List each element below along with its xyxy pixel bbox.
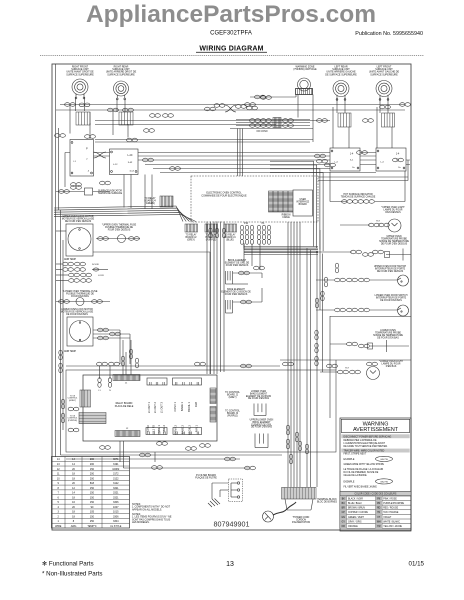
svg-text:WHITE / BLANC: WHITE / BLANC [383,520,400,523]
filter board dashed box [229,479,243,502]
svg-text:DLB: DLB [194,402,198,407]
svg-text:LES MODELES.: LES MODELES. [132,521,150,524]
svg-text:3-4Z: 3-4Z [128,162,133,164]
svg-text:AMB TEMP: AMB TEMP [64,350,76,353]
connector top-left pair b [85,135,96,139]
svg-text:COMMANDE DE FOUR ELECTRONIQ: COMMANDE DE FOUR ELECTRONIQUE [201,195,247,198]
svg-text:BROWN / BRUN: BROWN / BRUN [348,508,365,510]
svg-text:BLACK / NOIR: BLACK / NOIR [348,497,363,500]
svg-text:OR: OR [342,526,346,528]
probe connectors lower [347,342,370,348]
wire broil [233,273,263,284]
warning example 1 [344,456,393,461]
connector pair mid top [150,114,161,118]
color code table [340,496,411,528]
svg-text:BK: BK [342,498,346,500]
svg-text:SURFACE SUPERIEURE: SURFACE SUPERIEURE [370,73,398,76]
wire warming zone feed [250,95,313,143]
label hot surface indicator [341,193,376,198]
terminal block left rear unit [338,113,351,127]
connector group center row3 [283,119,294,128]
svg-text:AMB TEMP: AMB TEMP [64,258,76,261]
left connector ovals [68,407,79,432]
header separator dotted line [40,55,424,57]
connector pair rf [79,103,90,107]
relay board pin header group1 [147,378,167,385]
dual switch left front [376,148,406,171]
svg-text:MDL 2: MDL 2 [162,424,166,432]
svg-text:GREEN WIRE WITH YELLOW STRIPE: GREEN WIRE WITH YELLOW STRIPE [344,464,385,466]
wire mid long pair [95,95,313,143]
svg-text:3306: 3306 [113,515,119,518]
power cord plug [263,511,274,522]
wire left front unit drops [377,99,392,148]
relay board right connector D hatched [210,407,216,423]
wire eoc right stub [318,160,408,181]
user interface board box [293,190,313,216]
door switch connectors lower [335,308,370,312]
wire bundle vertical right2 [307,248,323,487]
wire rr switch drops [124,175,152,210]
wire nested bends right [270,161,323,251]
svg-text:D'EN DESSUS: D'EN DESSUS [385,212,401,214]
svg-text:FIRST, STRIPE NEXT: FIRST, STRIPE NEXT [344,454,367,456]
label to control board j2 [225,392,240,399]
svg-text:105: 105 [90,511,95,514]
wire probe lower [330,343,347,345]
left row tags [92,264,104,277]
wire top chassis [280,360,411,370]
connector ovals band right [317,159,336,166]
connector pair rr-a [108,108,119,112]
upper oven light connectors [369,221,390,227]
connector block eoc mid hatched [205,224,218,232]
infinite switch right front [70,140,94,177]
pin ovals on mid verticals [209,228,226,238]
label surface indicator [98,190,123,196]
connector pair top band d [380,105,391,109]
pin group p1 [257,225,270,235]
wires above relay board [66,340,280,379]
notes french [132,513,172,524]
svg-text:3-1Z: 3-1Z [129,170,134,172]
lower oven thermal fuse wire [56,301,110,303]
upper oven lock motor [68,228,91,251]
connector pair bake [241,300,252,304]
wire bus switch band [65,153,410,173]
upper oven light lamp [388,219,401,232]
wire pins to elements [244,244,260,271]
warning gray band 2 [341,449,409,453]
pin group p10 lower [240,235,253,245]
wire right rear unit drops [113,99,128,138]
connector row below relay [100,442,211,451]
svg-text:3306: 3306 [113,501,119,504]
surface unit right rear [114,81,129,100]
svg-text:LE TRACE DE FILAGE: LA COULEUR: LE TRACE DE FILAGE: LA COULEUR [344,468,384,471]
title underline [196,51,267,53]
lower oven light connectors [338,368,361,374]
color code header band [340,491,411,496]
wire right inner box [330,316,411,418]
relay board left connector A hatched [80,390,91,407]
label upper oven lock motor [62,216,95,223]
connector pair broil [239,266,265,275]
ribbon cable hatched [269,191,294,212]
wire lower light [320,371,338,373]
right column vertical wire [319,230,321,310]
svg-text:(GREY): (GREY) [187,239,195,241]
upper broil element [226,271,233,284]
terminal block right front unit [76,112,90,125]
svg-text:13: 13 [226,561,234,568]
label lower bake element [246,391,272,400]
svg-text:DE FAIRE TOUT SERVICE D'ENTRE: DE FAIRE TOUT SERVICE D'ENTRETIEN. [344,445,389,448]
upper oven lock motor box [66,224,93,256]
svg-text:CONV 1: CONV 1 [173,401,177,411]
svg-text:AppliancePartsPros.com: AppliancePartsPros.com [86,1,376,28]
upper oven door switch [398,275,409,286]
svg-text:818: 818 [90,482,95,485]
svg-text:PR: PR [377,503,381,505]
svg-text:EXEMPLE: EXEMPLE [344,481,355,483]
svg-text:TN: TN [377,512,380,514]
terminal block hatched [282,488,317,500]
svg-text:DISCONNECT POWER BEFORE SERVIC: DISCONNECT POWER BEFORE SERVICING [344,436,392,438]
svg-text:3321: 3321 [113,487,119,490]
svg-text:FOUR D'EN DESSUS: FOUR D'EN DESSUS [225,294,248,296]
wire gauge table text [55,458,122,528]
svg-text:FOUR D'EN DESSUS: FOUR D'EN DESSUS [108,229,131,231]
svg-text:L1 OUT 2: L1 OUT 2 [153,401,157,413]
wire bundle vertical right [288,222,300,487]
wire bundle eoc to bus [244,247,318,255]
wire hot surface [330,171,405,202]
svg-text:WIRING DIAGRAM: WIRING DIAGRAM [199,46,263,53]
svg-text:3191: 3191 [113,463,119,466]
lower oven bake element [254,404,266,416]
svg-text:BLOC DE BORNES: BLOC DE BORNES [317,501,338,503]
connector pair fuse u1 [98,237,109,241]
svg-text:(PURPLE): (PURPLE) [227,415,238,417]
svg-text:DE FOUR D'EN BAS: DE FOUR D'EN BAS [66,313,88,316]
terminal block body [285,499,313,510]
wire upper light [340,224,370,226]
wires below relay board [61,441,283,468]
svg-text:GN-YW: GN-YW [380,459,388,461]
svg-text:RED / ROUGE: RED / ROUGE [383,508,398,510]
svg-text:TEMP°C: TEMP°C [87,525,97,528]
svg-text:BR: BR [342,508,346,510]
wire door lower [316,309,398,311]
svg-text:250: 250 [90,520,95,523]
connector to relay board j4 hatched [160,196,173,207]
vertical ovals right col [324,263,338,287]
wire crossover pair [225,105,236,112]
label to relay board p4 [224,234,236,242]
svg-text:1007: 1007 [113,506,119,509]
warning title box [341,419,409,432]
relay board pin header group2 [173,378,202,385]
terminal block left front unit [382,113,395,127]
svg-text:DE SURFACE SUPERIEURE: DE SURFACE SUPERIEURE [325,73,357,76]
warning gray band 1 [341,434,409,438]
label upper oven thermal fuse [102,224,137,232]
wire probe upper [316,251,352,253]
diagram border frame [52,64,411,530]
label upper oven temp probe [379,236,409,245]
relay board top pins [98,378,112,388]
connector pair surf ind [59,190,70,194]
label upper oven light [381,207,405,214]
wire bake [233,288,263,302]
svg-text:807949901: 807949901 [214,520,250,529]
svg-text:D'ALIMENTATION: D'ALIMENTATION [292,521,311,524]
connector block center hatched [273,118,281,128]
label left front surface unit [369,66,400,77]
wire gauge table grid [52,457,130,529]
svg-text:(750/80W) WATTAGE: (750/80W) WATTAGE [293,68,317,71]
svg-text:GN: GN [342,517,346,519]
wire bundle diagonal left [54,206,196,222]
svg-text:WH: WH [377,521,381,523]
connector block eoc mid2 hatched [224,224,237,232]
connector pair sw band a [143,158,154,162]
svg-text:GRAY / GRIS: GRAY / GRIS [348,520,362,523]
svg-text:* Non-Illustrated Parts: * Non-Illustrated Parts [42,571,103,578]
svg-text:(BLUE): (BLUE) [226,239,234,241]
svg-text:BROIL 2: BROIL 2 [188,424,192,434]
svg-text:BAKE 2: BAKE 2 [181,424,185,434]
label to relay board j3 purple [205,234,217,242]
pin group p10 [240,225,253,235]
svg-text:DE FOUR D'EN BAS: DE FOUR D'EN BAS [377,336,399,339]
svg-text:PK: PK [377,498,381,500]
svg-text:150: 150 [90,468,95,471]
label user interface board [296,199,309,206]
svg-text:3071: 3071 [113,458,119,461]
upper oven thermal fuse wire [96,238,140,240]
connector pair lr [317,119,328,123]
svg-text:P10: P10 [244,223,249,225]
svg-text:TEMOIN DE SURFACE CHAUDE: TEMOIN DE SURFACE CHAUDE [341,195,376,198]
door switch connectors upper [335,278,370,282]
svg-text:(PURPLE): (PURPLE) [206,239,217,241]
warming zone element [296,78,313,95]
svg-text:VIOLET: VIOLET [383,517,392,519]
svg-text:CGEF302TPFA: CGEF302TPFA [210,31,252,37]
label right rear surface unit [106,66,137,77]
lower oven door switch [398,305,409,316]
svg-text:✻ Functional Parts: ✻ Functional Parts [42,561,94,568]
relay board J1 connector hatched [113,375,140,381]
relay board box [83,375,217,441]
connector pair lf [363,119,374,123]
connector pair top left [65,103,76,107]
svg-text:(GREY): (GREY) [229,397,237,399]
svg-text:200: 200 [90,477,95,480]
svg-text:FIL VERT AVEC BANDE JAUNE: FIL VERT AVEC BANDE JAUNE [344,486,378,489]
connector group center row2 [250,124,272,128]
svg-text:SURFACE SUPERIEURE: SURFACE SUPERIEURE [107,73,135,76]
relay board pin header group3 [146,428,167,435]
svg-text:DE FOUR D'EN BAS: DE FOUR D'EN BAS [248,397,270,400]
svg-text:L1 P2: L1 P2 [151,424,155,431]
connector block eoc left hatched [185,224,198,232]
svg-text:DEBRANCHEZ L'APPAREIL DE: DEBRANCHEZ L'APPAREIL DE [344,439,377,442]
lower oven light lamp [367,367,380,380]
svg-text:01/15: 01/15 [409,561,425,568]
svg-text:CELLE DE LA BANDE.: CELLE DE LA BANDE. [344,474,368,477]
warning box frame [340,418,411,531]
svg-text:200: 200 [90,463,95,466]
svg-text:L-4C: L-4C [128,155,133,157]
svg-text:DE FOUR D'EN DESSUS: DE FOUR D'EN DESSUS [377,271,404,273]
connector pair sw band d [357,151,368,155]
connector pair sw band e [393,158,404,162]
connector row below relay 2 [140,453,256,470]
svg-text:150: 150 [90,515,95,518]
connector ovals crossover [205,96,272,111]
connector pair rr-b [123,108,134,112]
svg-text:3321: 3321 [113,496,119,499]
label L1 N [98,390,111,392]
pin labels group3 [146,424,166,432]
wire bundle bend [243,244,245,250]
svg-text:TRACER WIRE: WIRE COLOR NOTED: TRACER WIRE: WIRE COLOR NOTED [344,450,385,453]
pin group p1 lower [257,235,270,245]
svg-text:3172: 3172 [113,473,119,476]
connector pair motor out [98,328,121,340]
label to control board j3 [225,411,240,418]
svg-text:GY: GY [342,521,346,523]
probe connectors upper [351,250,384,256]
connector pair lower area [97,362,120,366]
svg-text:DE FOUR D'EN DESSUS: DE FOUR D'EN DESSUS [65,221,92,223]
pin labels group1 [147,401,163,413]
svg-text:CP: CP [342,512,346,514]
svg-text:BROIL 1: BROIL 1 [187,401,191,411]
svg-text:150: 150 [90,492,95,495]
svg-text:DU FIL DE PREMIER, SUIVIE DE: DU FIL DE PREMIER, SUIVIE DE [344,472,379,474]
wire left rows [56,264,108,281]
svg-text:UL STYLE: UL STYLE [110,525,122,528]
lower oven broil element [255,434,268,448]
right column pin stack [315,330,318,366]
svg-text:DE FOUR D'EN DESSUS: DE FOUR D'EN DESSUS [381,243,408,245]
upper oven thermal fuse body [118,235,126,243]
svg-text:AWG: AWG [71,525,77,528]
surface indicator lamp [85,188,93,195]
svg-text:(GREEN): (GREEN) [145,203,155,205]
svg-text:DE FOUR D'EN BAS: DE FOUR D'EN BAS [251,426,273,429]
connector stack left bus [59,350,65,423]
svg-text:EXAMPLE: EXAMPLE [344,458,355,461]
pin labels group2 [173,401,198,411]
electronic oven control dashed box [191,176,318,222]
svg-text:SURFACE SUPERIEURE: SURFACE SUPERIEURE [66,73,94,76]
connector pair top band e [400,103,411,107]
connector pair fuse l1 [59,300,70,304]
warning example 2 [344,479,393,484]
svg-text:(PURPLE): (PURPLE) [68,420,78,422]
svg-text:COLOR CODE / CODE DES COULEURS: COLOR CODE / CODE DES COULEURS [355,494,397,496]
svg-text:3122: 3122 [113,477,119,480]
svg-text:Publication No. 5995655940: Publication No. 5995655940 [355,31,423,37]
label lower oven temp probe [373,330,403,339]
connector pair surf ind2 [71,186,82,190]
upper bake element [226,300,233,313]
label upper bake element [221,288,251,296]
svg-text:3304: 3304 [113,520,119,523]
svg-text:WIRE: WIRE [55,525,62,528]
label ribbon cable [282,215,291,219]
connector row above relay [195,362,378,368]
wire left rear unit drops [333,99,349,148]
lower oven lock motor box [67,317,93,346]
surface unit right front [72,79,88,99]
svg-text:GREEN / VERT: GREEN / VERT [348,517,364,519]
svg-text:BAKE 1: BAKE 1 [180,401,184,411]
connector pair sw band c [315,154,326,158]
svg-text:150: 150 [90,496,95,499]
outer chassis box [66,370,336,452]
svg-text:200: 200 [90,458,95,461]
svg-text:APPEAR ON ALL MODELS.: APPEAR ON ALL MODELS. [132,508,162,511]
connector pair below ind b [100,181,111,185]
wire s-curve between switches [94,152,107,158]
relay board pin header group4 [173,428,202,435]
svg-text:D'EN BAS: D'EN BAS [386,365,397,368]
svg-text:MDL 1: MDL 1 [157,424,161,432]
label to relay board j4 [144,197,156,205]
svg-text:TAN / HAVANE: TAN / HAVANE [383,511,399,514]
svg-text:(GREY): (GREY) [69,400,76,402]
terminal block right rear unit [119,112,133,125]
svg-text:1015: 1015 [113,511,119,514]
connector group center row1 [250,119,272,123]
pin labels group4 [174,424,199,434]
label power cord [292,517,311,524]
wire bundle mid verticals [207,222,224,375]
svg-text:PLACA DE RELE: PLACA DE RELE [115,405,134,408]
wire surface indicator [56,191,110,193]
label left rear surface unit [325,66,357,77]
connector pair below ind a [71,183,82,187]
filter board components [231,482,240,498]
lower oven thermal fuse body [76,298,84,306]
svg-text:BLUE / BLEU: BLUE / BLEU [348,503,362,505]
svg-text:150: 150 [90,487,95,490]
connector pair mid top2 [163,114,174,118]
lower oven temperature probe [368,340,410,352]
label filter board [195,474,217,479]
connector top-left pair d [144,129,155,133]
svg-text:FOUR D'EN DESSUS: FOUR D'EN DESSUS [226,265,249,267]
surface unit left rear [333,81,349,101]
svg-text:BOARD: BOARD [299,203,308,206]
connector pair top band c [245,103,256,107]
label terminal block [317,498,338,503]
connector top-left pair c [127,138,138,142]
label lower oven thermal fuse [63,290,98,298]
wire motor region [93,334,130,364]
infinite switch right rear [110,149,139,175]
svg-text:BU: BU [342,503,346,505]
wire bus top band [56,105,405,125]
power cord cable [273,502,296,515]
svg-text:NO CONN: NO CONN [257,131,268,133]
